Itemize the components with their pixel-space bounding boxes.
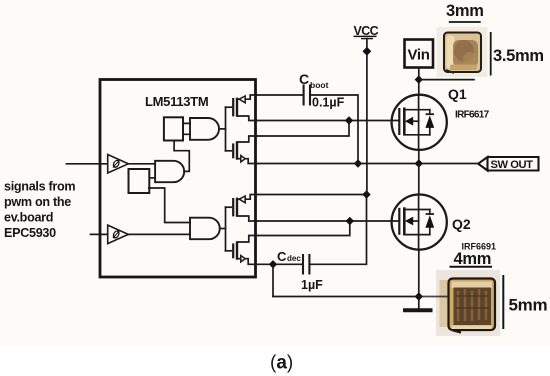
wire Q1 source to SW node xyxy=(418,150,420,164)
wire AND3 out to low-side gates xyxy=(220,228,226,230)
driver IC box LM5113TM xyxy=(100,80,256,278)
wire Cdec to VCC rail xyxy=(310,195,366,265)
junction VDD/VCC xyxy=(362,190,370,198)
M4 source arrow xyxy=(237,258,241,260)
wire D2 to AND3 xyxy=(149,188,190,223)
wire ground rail xyxy=(273,296,419,298)
delay block D1 xyxy=(164,117,183,140)
high-side output stage gates bus xyxy=(225,107,227,151)
svg-text:0.1µF: 0.1µF xyxy=(312,96,345,110)
low-side output stage gates bus xyxy=(225,207,227,251)
svg-text:4mm: 4mm xyxy=(454,250,492,268)
junction HOH/HOL xyxy=(345,116,353,124)
svg-text:ev.board: ev.board xyxy=(4,211,53,225)
junction LOH/LOL xyxy=(346,217,354,225)
AND gate AND2 xyxy=(155,161,184,182)
dimension 3.5mm xyxy=(490,32,492,76)
svg-text:pwm on the: pwm on the xyxy=(4,195,71,209)
M2 source arrow xyxy=(237,158,241,160)
AND gate AND3 xyxy=(190,218,220,240)
wire LOL pin joined to LOH xyxy=(255,221,350,236)
transistor Q2 xyxy=(392,195,447,250)
low-side PMOS M3 xyxy=(226,206,232,208)
junction ground node xyxy=(415,292,423,300)
svg-text:Q2: Q2 xyxy=(452,216,471,232)
delay block D2 xyxy=(129,169,150,193)
wire D2 to AND2 xyxy=(149,177,155,179)
svg-text:signals from: signals from xyxy=(4,179,75,193)
AND gate AND1 xyxy=(190,118,219,140)
photo chip bottom (IRF6691) xyxy=(436,270,500,336)
capacitor Cdec xyxy=(303,254,309,275)
svg-text:C: C xyxy=(277,249,287,264)
junction Cboot/SW xyxy=(354,159,362,167)
ground symbol xyxy=(403,308,433,312)
Vin terminal box xyxy=(405,40,434,68)
svg-text:Q1: Q1 xyxy=(448,86,467,102)
svg-text:dec: dec xyxy=(287,254,301,263)
wire Cboot to SW node xyxy=(311,95,358,164)
M1 drain xyxy=(237,116,257,121)
high-side NMOS M2 xyxy=(226,150,232,152)
photo chip bottom body xyxy=(449,279,496,331)
wire VSS pin to Cdec xyxy=(255,263,302,265)
wire HI input xyxy=(67,163,108,165)
dimension 5mm xyxy=(502,275,504,329)
wire SW line xyxy=(255,163,478,165)
junction on VCC rail xyxy=(363,47,372,56)
wire AND2 out to delay D1 xyxy=(174,141,189,172)
wire buffer B1 to AND2 xyxy=(128,163,155,165)
photo chip top (LM5113 die) xyxy=(437,27,488,77)
transistor Q1 xyxy=(392,95,447,150)
wire VCC rail xyxy=(366,39,368,195)
svg-text:3mm: 3mm xyxy=(446,2,484,20)
SW OUT terminal xyxy=(478,157,538,171)
wire HOH pin to Q1 gate xyxy=(255,120,399,122)
svg-text:SW OUT: SW OUT xyxy=(491,159,534,171)
svg-text:3.5mm: 3.5mm xyxy=(493,47,544,65)
wire VDD pin to VCC rail xyxy=(255,194,367,196)
buffer B2 xyxy=(108,225,129,244)
svg-text:EPC5930: EPC5930 xyxy=(4,226,56,240)
wire Vin to Q1 drain xyxy=(418,68,420,96)
M3 source arrow xyxy=(237,198,239,200)
capacitor Cboot xyxy=(304,85,310,106)
M4 drain xyxy=(237,236,257,243)
wire D1 to AND1 (two stubs) xyxy=(183,123,190,134)
wire SW node to Q2 drain xyxy=(418,164,420,195)
M2 drain xyxy=(237,136,257,142)
wire LOH pin to Q2 gate xyxy=(255,220,399,222)
wire HB pin to Cboot xyxy=(255,94,303,96)
junction Cdec left node xyxy=(269,260,277,268)
M1 source arrow xyxy=(237,98,239,100)
svg-text:(a): (a) xyxy=(270,353,293,374)
svg-text:IRF6617: IRF6617 xyxy=(455,109,490,120)
svg-text:boot: boot xyxy=(310,80,329,90)
wire LI input xyxy=(91,233,108,235)
svg-text:5mm: 5mm xyxy=(509,296,548,315)
high-side PMOS M1 xyxy=(226,106,232,108)
svg-text:C: C xyxy=(299,71,309,87)
svg-text:Vin: Vin xyxy=(408,47,430,64)
svg-text:1µF: 1µF xyxy=(301,278,323,292)
junction Vin node xyxy=(415,75,423,83)
svg-text:LM5113TM: LM5113TM xyxy=(145,94,208,109)
wire Q2 source to ground xyxy=(418,250,420,309)
wire Cdec node down to ground rail xyxy=(272,264,274,296)
wire ground rail continuation under photo xyxy=(419,296,447,298)
wire HOL pin joined to HOH xyxy=(255,121,349,137)
M3 drain xyxy=(237,216,257,221)
junction SW node xyxy=(415,159,423,167)
low-side NMOS M4 xyxy=(226,250,232,252)
buffer B1 xyxy=(108,155,129,174)
wire callout to photo xyxy=(419,79,474,81)
wire buffer B2 to AND3 xyxy=(128,233,190,234)
wire AND1 out to high-side gates xyxy=(219,128,226,130)
